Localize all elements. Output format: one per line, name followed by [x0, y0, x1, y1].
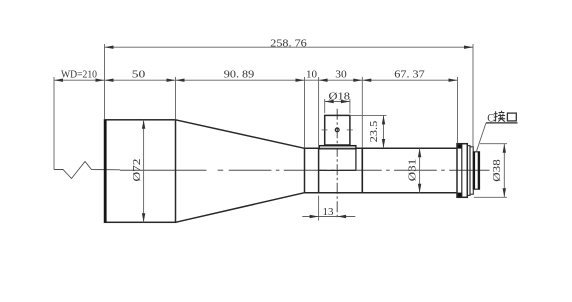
dimension phi38 extension bottom — [474, 196, 507, 198]
extension line joint A — [318, 77, 320, 148]
arrow 258.76 left — [105, 46, 114, 49]
arrow 90.89 right — [296, 79, 305, 82]
arrow phi38 top — [503, 144, 506, 153]
C-mount stub thick right edge — [478, 152, 480, 189]
dimension phi38 line — [503, 144, 505, 198]
svg-text:Ø38: Ø38 — [491, 159, 503, 182]
arrow 13 right outside — [337, 215, 346, 218]
dimension phi18 line — [325, 101, 350, 103]
set screw hole circle — [335, 128, 339, 132]
clamp seam horizontal — [319, 169, 356, 171]
arrow WD left — [54, 79, 63, 82]
svg-text:Ø72: Ø72 — [131, 159, 143, 182]
arrow 10 right outside — [319, 79, 328, 82]
tube joint edge A — [318, 148, 320, 192]
centerline main horizontal axis — [54, 162, 120, 179]
set screw bottom — [458, 193, 462, 197]
flange disc 2 — [467, 146, 470, 196]
svg-text:258. 76: 258. 76 — [270, 37, 307, 49]
cone top edge — [176, 120, 305, 149]
extension line cone end — [304, 77, 306, 148]
set screw top — [458, 144, 462, 148]
arrow 67.37 left — [362, 79, 371, 82]
arrow WD right — [96, 79, 105, 82]
dimension 23.5 line — [383, 115, 385, 148]
arrow phi18 right — [341, 100, 350, 103]
C-mount thread stub — [473, 152, 479, 189]
extension line joint B — [361, 77, 363, 148]
dimension 23.5 extension — [350, 114, 387, 116]
arrow 50 right — [167, 79, 176, 82]
glyph kou box — [507, 113, 516, 121]
mount flange disc — [457, 144, 467, 198]
C-mount stub thick left edge — [473, 152, 475, 189]
port box — [325, 115, 350, 145]
arrow 258.76 right — [464, 46, 473, 49]
extension line barrel rear — [175, 77, 177, 120]
arrow phi72 top — [142, 120, 145, 129]
arrow 67.37 right — [449, 79, 458, 82]
lens barrel front rectangle — [105, 120, 176, 223]
tube bottom edge — [305, 192, 458, 194]
extension line WD left — [53, 77, 55, 170]
dimension 258.76 line — [105, 46, 474, 48]
centerline port vertical dash-dot — [336, 109, 338, 219]
collar plate — [319, 146, 356, 149]
svg-text:23.5: 23.5 — [368, 121, 380, 143]
set screw hole center dot — [337, 129, 338, 130]
dimension 13 extension — [318, 196, 320, 221]
svg-text:WD=210: WD=210 — [61, 70, 97, 81]
svg-text:Ø31: Ø31 — [407, 159, 419, 182]
arrow 30 right — [353, 79, 362, 82]
dimension phi18 extension right — [349, 99, 351, 113]
extension line flange front — [457, 77, 459, 143]
hole centerline tick left — [322, 129, 328, 131]
tube joint edge B — [361, 148, 363, 192]
clamp seam vertical — [355, 148, 357, 170]
dimension phi18 extension left — [324, 99, 326, 113]
glyph jie right part — [498, 111, 505, 122]
arrow phi18 left — [325, 100, 334, 103]
C-mount leader line — [476, 123, 486, 152]
centerline optical axis dash-dot — [120, 169, 490, 171]
arrow 13 left outside — [310, 215, 319, 218]
dimension phi72 line — [143, 120, 145, 223]
cone bottom edge — [176, 193, 305, 223]
spacer ring — [470, 147, 473, 194]
arrow 50 left — [105, 79, 114, 82]
svg-text:67. 37: 67. 37 — [394, 69, 425, 81]
tube top edge — [305, 147, 458, 149]
arrow 23.5 top — [382, 115, 385, 124]
dimension phi31 line — [419, 148, 421, 192]
svg-text:50: 50 — [132, 69, 146, 81]
svg-text:C: C — [487, 111, 494, 125]
C-mount label underline — [486, 122, 518, 124]
svg-text:13: 13 — [323, 206, 334, 218]
flange inner line — [461, 144, 463, 198]
dimension phi38 extension top — [480, 143, 507, 145]
arrow 23.5 bottom — [382, 139, 385, 148]
dimension chain line — [54, 79, 458, 81]
hole centerline tick right — [347, 129, 353, 131]
arrow phi31 top — [418, 148, 421, 157]
arrow 90.89 left — [176, 79, 185, 82]
arrow phi31 bottom — [418, 184, 421, 193]
svg-text:10: 10 — [306, 69, 317, 81]
extension line rear end — [472, 44, 474, 151]
arrow phi38 bottom — [503, 188, 506, 197]
svg-text:30: 30 — [335, 69, 347, 81]
cone end edge — [304, 148, 306, 192]
svg-text:Ø18: Ø18 — [329, 90, 351, 102]
dimension 13 line — [302, 216, 355, 218]
lens front face thick edge — [104, 120, 107, 223]
svg-text:90. 89: 90. 89 — [224, 69, 255, 81]
extension line lens front — [104, 44, 106, 120]
glyph jie hand radical — [494, 111, 498, 121]
arrow phi72 bottom — [142, 213, 145, 222]
